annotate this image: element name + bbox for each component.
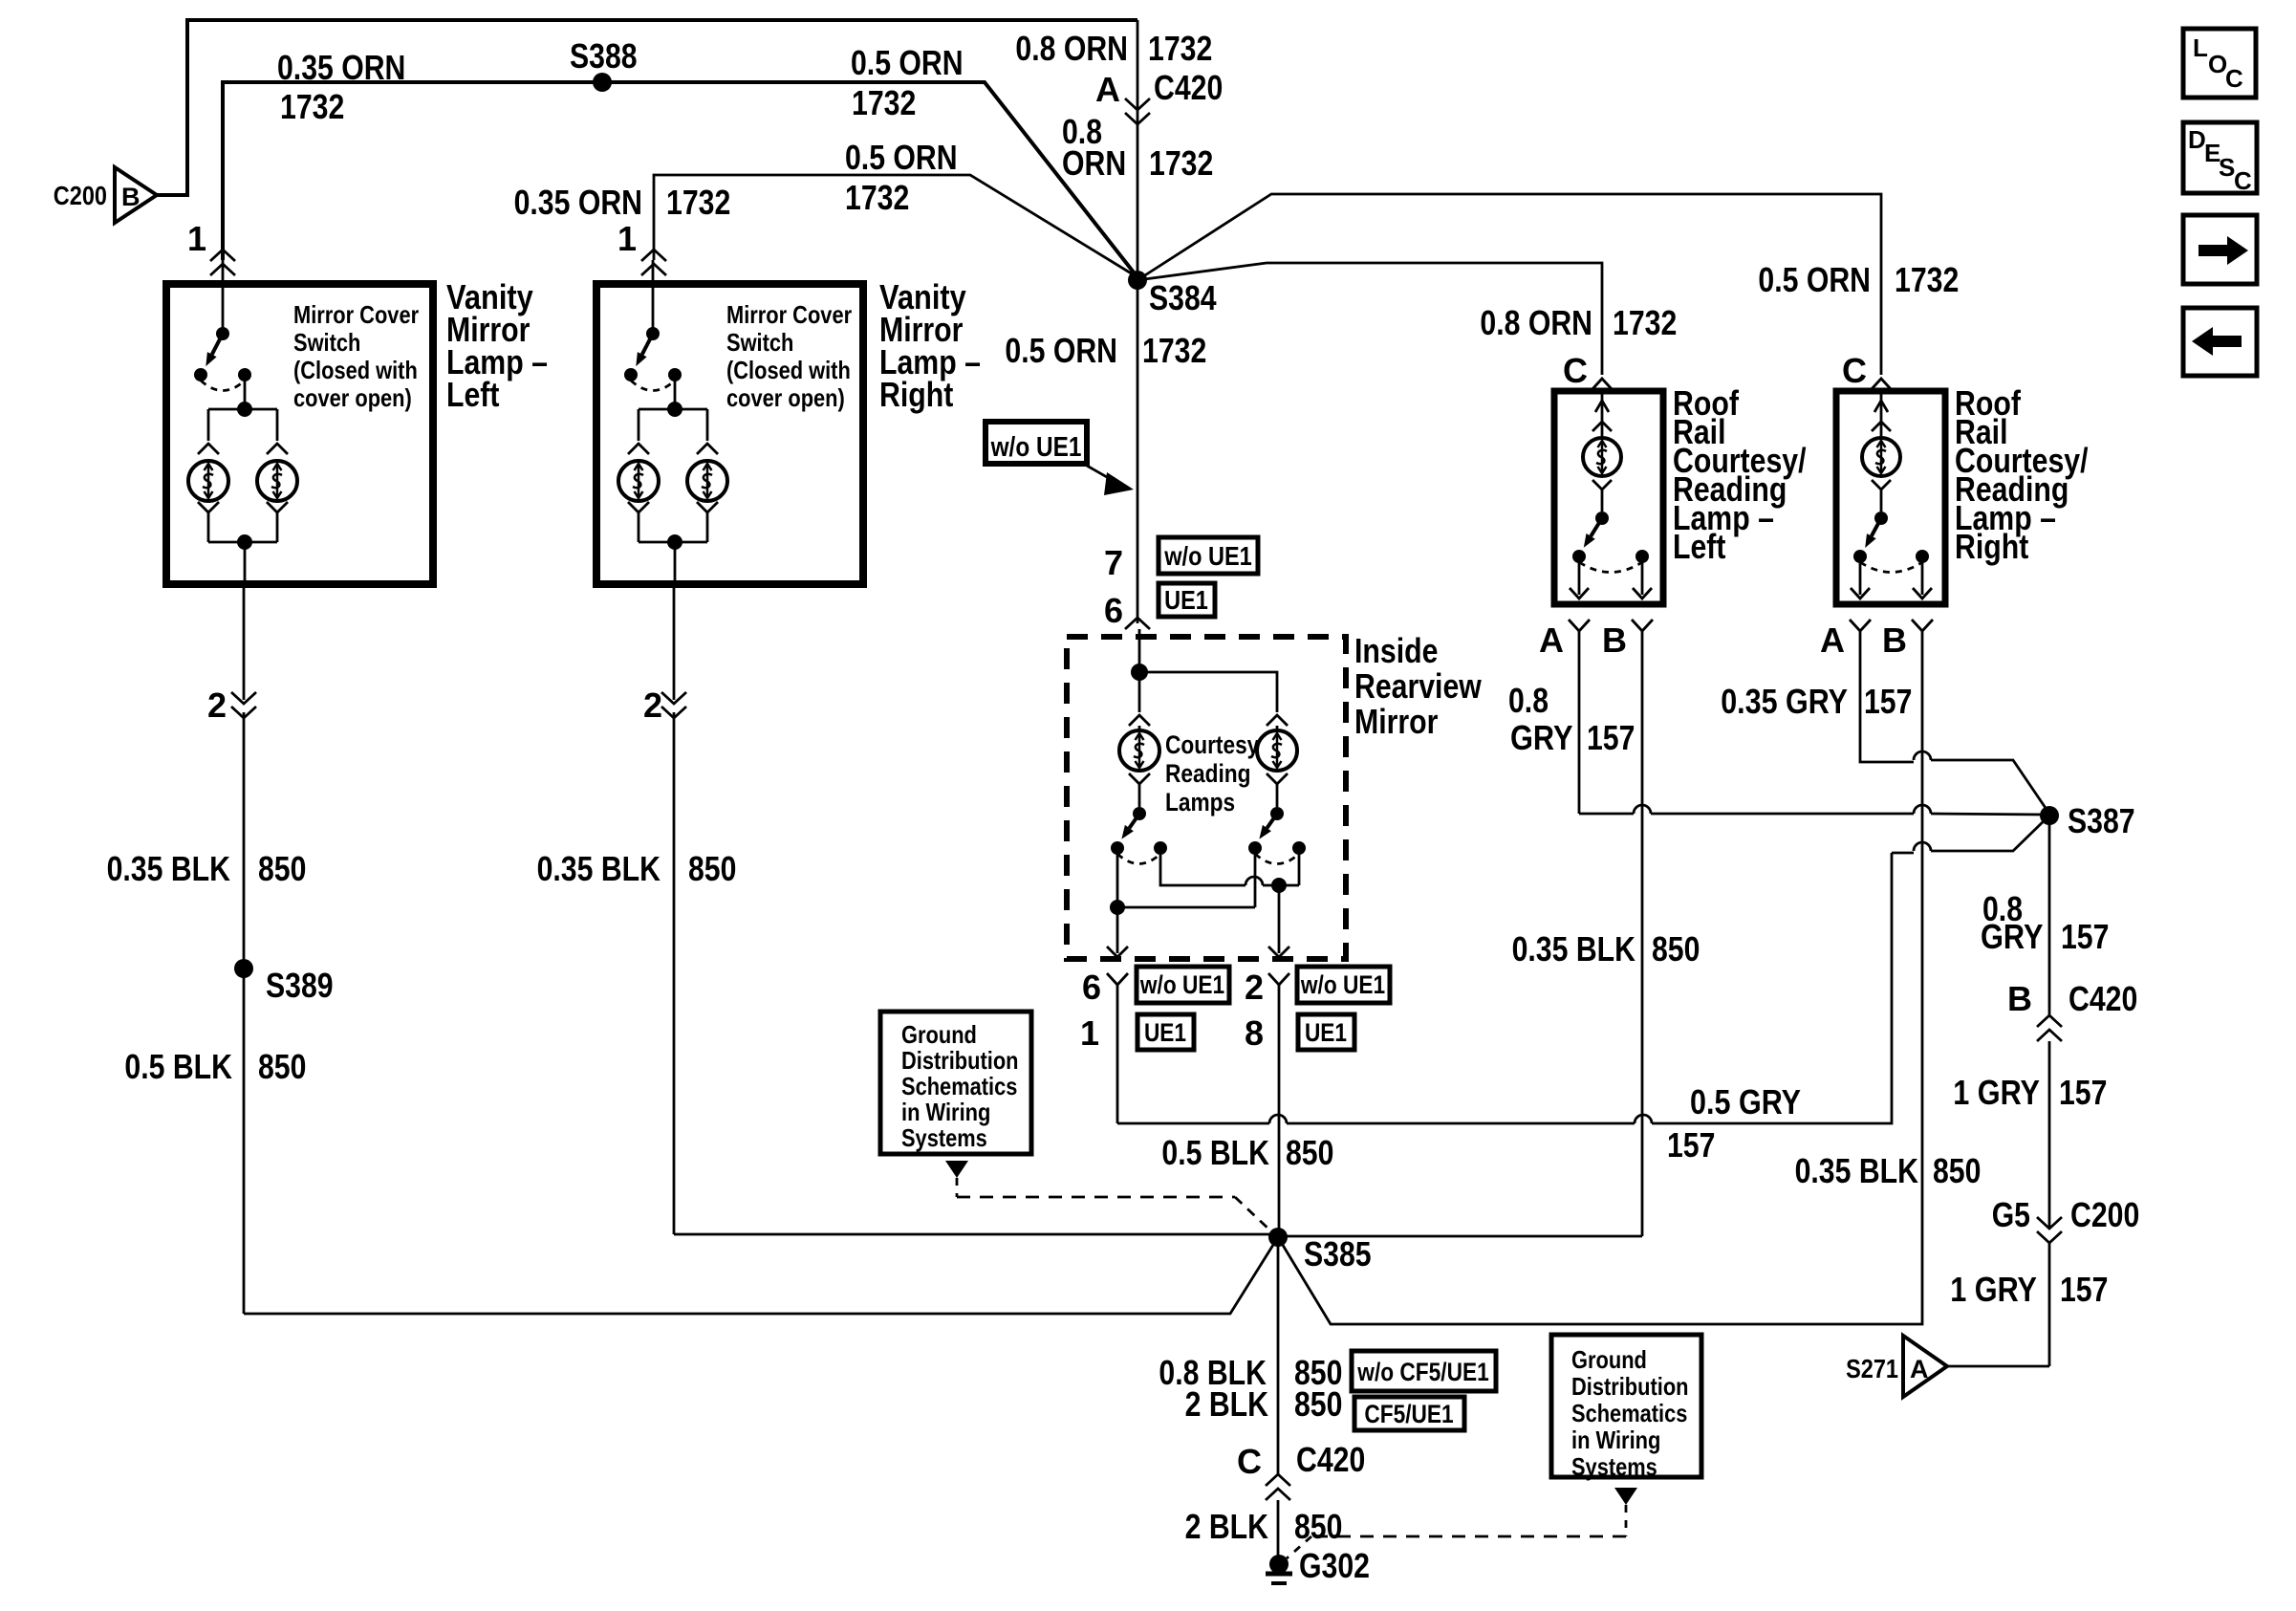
svg-text:157: 157 — [2059, 1073, 2107, 1112]
svg-text:(Closed with: (Closed with — [293, 356, 418, 384]
svg-text:UE1: UE1 — [1164, 585, 1208, 615]
svg-text:0.35 BLK: 0.35 BLK — [107, 849, 230, 888]
label 0.5 ORN 1732 (right feed) — [845, 138, 958, 217]
label Mirror Cover Switch right — [726, 300, 852, 412]
svg-text:Rearview: Rearview — [1354, 666, 1483, 706]
right GDS pointer and dashed wire to G302 — [1287, 1488, 1637, 1558]
wire 0.8 ORN trunk — [1137, 20, 1139, 280]
svg-text:B: B — [121, 183, 141, 211]
svg-text:Mirror Cover: Mirror Cover — [726, 300, 852, 329]
svg-text:C420: C420 — [2069, 979, 2137, 1018]
splice S384 — [1128, 271, 1217, 317]
label Roof Rail Courtesy Reading Lamp left — [1673, 383, 1807, 566]
vanity lamp 1 right — [618, 461, 659, 501]
svg-text:A: A — [1910, 1355, 1929, 1383]
svg-text:C420: C420 — [1296, 1440, 1365, 1479]
svg-text:B: B — [2007, 979, 2032, 1018]
svg-text:S387: S387 — [2068, 801, 2135, 840]
svg-text:Left: Left — [446, 375, 499, 414]
svg-text:850: 850 — [1933, 1151, 1981, 1190]
svg-text:1732: 1732 — [1142, 331, 1206, 370]
svg-text:G5: G5 — [1992, 1195, 2030, 1234]
label 1 GRY 157 — [1953, 1073, 2107, 1112]
svg-text:cover open): cover open) — [726, 383, 845, 412]
svg-text:Schematics: Schematics — [901, 1072, 1017, 1100]
svg-text:Schematics: Schematics — [1571, 1399, 1687, 1427]
wire riser top to S387 — [1892, 816, 2049, 853]
connector S271 (triangle A) — [1846, 1336, 1947, 1397]
svg-text:B: B — [1882, 620, 1907, 660]
svg-text:CF5/UE1: CF5/UE1 — [1364, 1400, 1453, 1428]
legend left arrow box — [2183, 308, 2257, 376]
wire left roof B down — [1278, 631, 1642, 1236]
svg-text:w/o UE1: w/o UE1 — [1300, 970, 1385, 999]
vanity mirror lamp box right — [596, 284, 863, 584]
pin 1 connector (right vanity) — [617, 219, 666, 275]
svg-text:C: C — [2234, 166, 2252, 195]
svg-text:S: S — [2219, 153, 2235, 182]
vanity lamp 2 left — [257, 461, 297, 501]
svg-text:Ground: Ground — [1571, 1345, 1647, 1374]
label 0.5 ORN 1732 (right roof C) — [1758, 260, 1959, 299]
svg-text:UE1: UE1 — [1144, 1018, 1186, 1047]
wire 0.5 ORN trunk below S384 — [1137, 280, 1139, 623]
roof rail lamp box left — [1554, 391, 1663, 604]
svg-text:Inside: Inside — [1354, 631, 1438, 670]
vanity lamp chevrons top left — [198, 444, 288, 454]
svg-text:(Closed with: (Closed with — [726, 356, 851, 384]
svg-text:Ground: Ground — [901, 1020, 977, 1049]
vanity lamp 1 left — [188, 461, 228, 501]
label Inside Rearview Mirror — [1354, 631, 1483, 741]
pin 7 label w/o UE1 — [1104, 537, 1258, 582]
label 0.8 GRY 157 (left roof A) — [1508, 681, 1635, 757]
svg-text:C420: C420 — [1154, 68, 1223, 107]
svg-text:in Wiring: in Wiring — [1571, 1426, 1660, 1454]
svg-text:Right: Right — [1955, 527, 2028, 566]
mirror cover switch right — [624, 260, 682, 391]
wire 0.5 ORN to right roof lamp — [1137, 194, 1881, 375]
mirror wiring NC contacts join — [1160, 848, 1299, 893]
mirror internal feed wire — [1131, 629, 1277, 712]
svg-text:Reading: Reading — [1165, 759, 1251, 788]
svg-text:0.8 ORN: 0.8 ORN — [1015, 29, 1128, 68]
label 0.35 BLK 850 (right roof B) — [1795, 1151, 1982, 1190]
vanity lamp chevrons bottom left — [198, 502, 288, 542]
svg-text:Mirror: Mirror — [1354, 702, 1438, 741]
roof lamp output arrows right — [1851, 556, 1932, 599]
svg-text:2: 2 — [643, 686, 662, 725]
svg-text:C: C — [1563, 351, 1588, 390]
svg-text:6: 6 — [1082, 968, 1101, 1007]
mirror pin 1 / 8 row — [1080, 1013, 1354, 1053]
wire 0.5 GRY run to S387 riser — [1117, 853, 1892, 1123]
wire C200 to top run — [156, 20, 1137, 195]
svg-text:C200: C200 — [2070, 1195, 2139, 1234]
svg-text:w/o CF5/UE1: w/o CF5/UE1 — [1356, 1358, 1488, 1386]
svg-text:cover open): cover open) — [293, 383, 412, 412]
svg-text:0.8: 0.8 — [1508, 681, 1549, 720]
roof lamp switch left — [1572, 512, 1649, 573]
label 2 BLK 850 (bottom) — [1185, 1507, 1343, 1546]
roof lamp lower chevron left — [1592, 480, 1612, 512]
svg-text:850: 850 — [258, 1047, 306, 1086]
svg-text:1732: 1732 — [280, 87, 344, 126]
label 0.8 BLK 850 w/o CF5/UE1 — [1159, 1351, 1496, 1392]
inside rearview mirror dashed box — [1067, 637, 1346, 959]
label Mirror Cover Switch left — [293, 300, 419, 412]
svg-text:0.5 ORN: 0.5 ORN — [1005, 331, 1117, 370]
svg-text:157: 157 — [1864, 682, 1912, 721]
svg-text:0.35 ORN: 0.35 ORN — [514, 183, 642, 222]
svg-text:0.35 BLK: 0.35 BLK — [537, 849, 661, 888]
svg-text:1: 1 — [187, 219, 206, 258]
svg-text:0.5 BLK: 0.5 BLK — [124, 1047, 232, 1086]
svg-text:1732: 1732 — [1149, 143, 1213, 183]
connector C200 pin G5 — [1992, 1195, 2140, 1366]
label 0.35 BLK 850 (left) — [107, 849, 307, 888]
svg-text:850: 850 — [1294, 1507, 1342, 1546]
connector C200 (triangle B) — [54, 167, 157, 223]
pins A B right — [1820, 620, 1933, 660]
svg-text:Mirror Cover: Mirror Cover — [293, 300, 419, 329]
legend LOC box — [2183, 29, 2256, 98]
mirror wiring left contact to right switch — [1110, 848, 1255, 915]
pin 2 connector (left vanity) — [207, 584, 256, 1314]
wire 0.5 ORN run (right vanity feed) — [654, 175, 1137, 277]
svg-text:1732: 1732 — [1895, 260, 1959, 299]
svg-text:6: 6 — [1104, 591, 1123, 630]
svg-text:S271: S271 — [1846, 1354, 1898, 1383]
vanity lamps bus left — [208, 375, 277, 441]
svg-text:2: 2 — [1245, 968, 1264, 1007]
svg-text:850: 850 — [688, 849, 736, 888]
label 0.35 ORN 1732 (right riser) — [514, 183, 731, 222]
ground distribution schematics box (left) — [880, 1012, 1031, 1154]
legend DESC box — [2183, 122, 2257, 195]
svg-text:Systems: Systems — [901, 1123, 987, 1152]
roof lamp internals left — [1592, 391, 1612, 438]
splice S385 — [1268, 1228, 1372, 1274]
vanity lamp chevrons bottom right — [628, 502, 718, 542]
label 0.5 ORN 1732 (below S384) — [1005, 331, 1206, 370]
svg-text:0.8 ORN: 0.8 ORN — [1480, 303, 1592, 342]
courtesy lamp left — [1119, 730, 1159, 771]
connector into mirror — [1125, 618, 1150, 629]
connector C420 pin A on trunk — [1095, 68, 1223, 124]
svg-text:1732: 1732 — [852, 83, 916, 122]
splice S388 — [570, 36, 638, 92]
label 0.5 BLK 850 (above S385) — [1161, 1133, 1333, 1172]
svg-text:157: 157 — [1587, 718, 1635, 757]
svg-text:2 BLK: 2 BLK — [1185, 1384, 1268, 1424]
svg-text:1 GRY: 1 GRY — [1950, 1270, 2037, 1309]
svg-text:157: 157 — [2061, 917, 2109, 956]
roof rail lamp box right — [1836, 391, 1945, 604]
wire right vanity to S385 — [674, 1233, 1278, 1236]
mirror lamp chevrons — [1129, 715, 1288, 730]
wire S385 down — [1277, 1237, 1280, 1474]
courtesy lamp right — [1257, 730, 1297, 771]
svg-text:0.35 GRY: 0.35 GRY — [1721, 682, 1848, 721]
svg-text:2: 2 — [207, 686, 227, 725]
wire S387 down — [2048, 816, 2051, 1015]
vanity lamps bus right — [639, 375, 707, 441]
svg-text:0.35 BLK: 0.35 BLK — [1512, 929, 1635, 969]
svg-text:850: 850 — [1286, 1133, 1333, 1172]
mirror switch right — [1248, 807, 1306, 864]
label 0.8 GRY 157 (below S387) — [1981, 889, 2109, 956]
svg-text:C: C — [1237, 1442, 1262, 1481]
svg-text:8: 8 — [1245, 1013, 1264, 1053]
roof lamp bulb right — [1862, 438, 1900, 476]
label 0.8 ORN 1732 (trunk top) — [1015, 29, 1212, 68]
label Vanity Mirror Lamp right — [879, 277, 981, 414]
wire mirror pin2 down to S385 — [1278, 985, 1281, 1237]
mirror cover switch left — [194, 260, 251, 391]
svg-text:Left: Left — [1673, 527, 1725, 566]
svg-text:1732: 1732 — [1613, 303, 1677, 342]
svg-text:1 GRY: 1 GRY — [1953, 1073, 2040, 1112]
svg-text:S384: S384 — [1149, 278, 1217, 317]
svg-text:Switch: Switch — [293, 328, 360, 357]
svg-text:157: 157 — [2060, 1270, 2108, 1309]
label 0.35 GRY 157 (right roof A) — [1721, 682, 1912, 721]
ground distribution schematics box (right) — [1551, 1335, 1701, 1481]
svg-text:0.5 GRY: 0.5 GRY — [1690, 1082, 1801, 1121]
svg-text:1732: 1732 — [666, 183, 730, 222]
pin C connector right — [1842, 351, 1892, 390]
vanity bottom bus left — [208, 534, 277, 584]
svg-text:Right: Right — [879, 375, 953, 414]
label 0.35 ORN 1732 (left) — [277, 48, 405, 126]
roof lamp switch right — [1853, 512, 1929, 573]
svg-text:7: 7 — [1104, 543, 1123, 582]
svg-text:Distribution: Distribution — [1571, 1372, 1689, 1401]
left GDS pointer and dashed wire to S385 — [945, 1161, 1271, 1231]
callout w/o UE1 with arrow — [986, 422, 1134, 495]
vanity lamp chevrons top right — [628, 444, 718, 454]
connector C420 pin C — [1237, 1440, 1365, 1564]
pin 6 label UE1 — [1104, 583, 1215, 630]
pin C connector left — [1563, 351, 1613, 390]
mirror lamp lower chevrons — [1129, 773, 1288, 807]
label 0.5 GRY 157 — [1667, 1082, 1801, 1165]
svg-text:D: D — [2188, 125, 2206, 154]
svg-text:A: A — [1095, 70, 1120, 109]
connector C420 pin B — [2007, 979, 2137, 1229]
wire left vanity to S385 — [244, 1237, 1278, 1314]
vanity bottom bus right — [639, 534, 707, 584]
ground G302 — [1266, 1546, 1370, 1585]
svg-text:S385: S385 — [1304, 1234, 1372, 1274]
legend right arrow box — [2183, 215, 2257, 284]
label 0.5 BLK 850 (left) — [124, 1047, 306, 1086]
pin 1 connector (left vanity) — [187, 219, 235, 275]
wire right roof B down to S385 run — [1278, 631, 1922, 1324]
svg-text:1732: 1732 — [845, 178, 909, 217]
wire S271 to riser — [1947, 1365, 2049, 1368]
pin 2 connector (right vanity) — [643, 584, 686, 1234]
label 2 BLK 850 CF5/UE1 — [1185, 1384, 1464, 1430]
svg-text:S389: S389 — [266, 966, 334, 1005]
label Courtesy Reading Lamps — [1165, 730, 1259, 816]
svg-text:w/o UE1: w/o UE1 — [1163, 541, 1251, 571]
svg-text:Distribution: Distribution — [901, 1046, 1019, 1075]
svg-text:1: 1 — [1080, 1013, 1099, 1053]
roof lamp bulb left — [1583, 438, 1621, 476]
mirror pin 6 / 2 row — [1082, 967, 1390, 1007]
svg-text:Lamps: Lamps — [1165, 788, 1235, 816]
splice S387 — [2040, 801, 2135, 840]
svg-text:2 BLK: 2 BLK — [1185, 1507, 1268, 1546]
svg-text:L: L — [2193, 33, 2208, 62]
svg-text:Systems: Systems — [1571, 1452, 1657, 1481]
svg-text:0.5 ORN: 0.5 ORN — [845, 138, 958, 177]
svg-text:Switch: Switch — [726, 328, 793, 357]
label Roof Rail Courtesy Reading Lamp right — [1955, 383, 2089, 566]
svg-text:1: 1 — [617, 219, 637, 258]
vanity mirror lamp box left — [166, 284, 433, 584]
svg-text:B: B — [1602, 620, 1627, 660]
roof lamp output arrows left — [1570, 556, 1652, 599]
mirror switch left — [1111, 807, 1167, 864]
svg-text:0.5 BLK: 0.5 BLK — [1161, 1133, 1269, 1172]
svg-text:GRY: GRY — [1981, 917, 2044, 956]
label 0.35 BLK 850 (left roof B) — [1512, 929, 1700, 969]
vanity lamp 2 right — [687, 461, 727, 501]
svg-text:850: 850 — [1294, 1384, 1342, 1424]
svg-text:G302: G302 — [1299, 1546, 1370, 1585]
svg-text:157: 157 — [1667, 1125, 1715, 1165]
roof lamp internals right — [1872, 391, 1891, 438]
svg-text:Courtesy: Courtesy — [1165, 730, 1259, 759]
svg-text:1732: 1732 — [1148, 29, 1212, 68]
svg-text:850: 850 — [1652, 929, 1700, 969]
label Vanity Mirror Lamp left — [446, 277, 548, 414]
svg-text:w/o UE1: w/o UE1 — [990, 432, 1082, 463]
svg-text:0.35 ORN: 0.35 ORN — [277, 48, 405, 87]
splice S389 — [234, 959, 334, 1005]
svg-text:ORN: ORN — [1062, 143, 1126, 183]
wire mirror pin6 down — [1116, 985, 1119, 1123]
svg-text:C: C — [1842, 351, 1867, 390]
svg-text:C: C — [2225, 64, 2243, 93]
label 0.35 BLK 850 (right) — [537, 849, 737, 888]
wire right roof A to S387 — [1860, 631, 2049, 814]
svg-text:S388: S388 — [570, 36, 638, 76]
svg-text:0.35 BLK: 0.35 BLK — [1795, 1151, 1918, 1190]
svg-text:GRY: GRY — [1510, 718, 1573, 757]
svg-text:0.5 ORN: 0.5 ORN — [1758, 260, 1871, 299]
svg-text:UE1: UE1 — [1305, 1018, 1347, 1047]
mirror output arrows — [1107, 885, 1289, 957]
svg-text:C200: C200 — [54, 181, 107, 210]
wire 0.8 ORN to left roof lamp — [1137, 263, 1602, 375]
svg-text:w/o UE1: w/o UE1 — [1139, 970, 1224, 999]
label 0.8 ORN 1732 (left roof C) — [1480, 303, 1677, 342]
label 1 GRY 157 (lower) — [1950, 1270, 2108, 1309]
label 0.5 ORN 1732 (after S388) — [851, 43, 964, 122]
roof lamp lower chevron right — [1872, 480, 1891, 512]
svg-text:0.5 ORN: 0.5 ORN — [851, 43, 964, 82]
wire left roof A to S387 — [1579, 631, 2046, 815]
svg-text:A: A — [1820, 620, 1845, 660]
svg-text:A: A — [1539, 620, 1564, 660]
svg-text:in Wiring: in Wiring — [901, 1098, 990, 1126]
wire 0.35 ORN run (left vanity feed) — [223, 82, 1137, 277]
pins A B left — [1539, 620, 1653, 660]
svg-text:850: 850 — [258, 849, 306, 888]
label 0.8 ORN 1732 (below C420) — [1062, 112, 1213, 183]
